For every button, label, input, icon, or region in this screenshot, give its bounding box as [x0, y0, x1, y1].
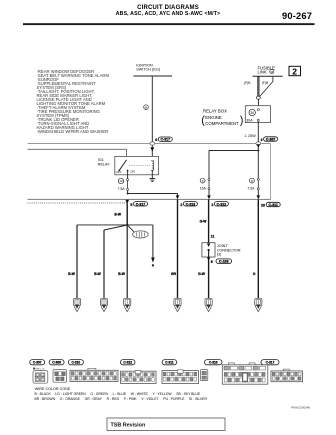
svg-text:C-311: C-311	[269, 203, 278, 207]
svg-text:C-103: C-103	[219, 260, 229, 264]
svg-text:BR : BROWN O : ORANGE: BR : BROWN O : ORANGE GR : GRAY R : RED …	[35, 397, 208, 401]
svg-text:15A: 15A	[200, 187, 207, 191]
svg-text:B-W: B-W	[118, 272, 125, 276]
svg-text:7.5A: 7.5A	[118, 187, 126, 191]
svg-text:C-317: C-317	[161, 138, 171, 142]
svg-text:IG1: IG1	[98, 158, 104, 162]
svg-text:6: 6	[155, 138, 157, 142]
svg-text:WIRE COLOR CODE: WIRE COLOR CODE	[35, 387, 71, 391]
svg-text:O: O	[253, 272, 256, 276]
svg-text:G-W: G-W	[200, 219, 208, 223]
svg-text:): )	[240, 115, 244, 127]
svg-text:(3): (3)	[217, 253, 222, 257]
svg-text:C-312: C-312	[123, 361, 132, 365]
svg-text:C-313: C-313	[209, 361, 218, 365]
svg-text:RAW01CM194B: RAW01CM194B	[291, 406, 310, 410]
svg-text:COMPARTMENT: COMPARTMENT	[205, 121, 239, 126]
svg-text:C-317: C-317	[136, 202, 146, 206]
svg-text:ABS, ASC, ACD, AYC AND S-AWC <: ABS, ASC, ACD, AYC AND S-AWC <M/T>	[116, 11, 220, 17]
svg-text:B: B	[145, 105, 147, 109]
svg-text:36: 36	[270, 70, 273, 74]
svg-text:LINK: LINK	[258, 69, 268, 74]
svg-text:CONNECTOR: CONNECTOR	[217, 248, 241, 252]
svg-text:9: 9	[211, 260, 213, 264]
svg-text:11: 11	[211, 235, 215, 239]
svg-text:B : BLACK LG : LIGHT GREEN: B : BLACK LG : LIGHT GREEN G : GREEN L :…	[35, 392, 201, 396]
svg-text:ON: ON	[130, 170, 134, 174]
svg-text:ENGINE: ENGINE	[205, 115, 222, 120]
svg-text:CIRCUIT DIAGRAMS: CIRCUIT DIAGRAMS	[137, 5, 199, 11]
svg-text:C-307: C-307	[33, 361, 42, 365]
svg-text:(: (	[201, 115, 205, 127]
svg-text:36: 36	[250, 111, 254, 115]
svg-text:8: 8	[251, 179, 253, 183]
svg-text:5: 5	[130, 203, 132, 207]
svg-text:1. 25W: 1. 25W	[244, 134, 256, 138]
svg-text:SWITCH (IG1): SWITCH (IG1)	[136, 68, 160, 72]
svg-text:30A: 30A	[246, 118, 253, 122]
svg-text:C-307: C-307	[266, 137, 276, 141]
svg-text:G-W: G-W	[198, 272, 206, 276]
svg-text:C-310: C-310	[71, 361, 80, 365]
svg-text:B-W: B-W	[68, 272, 75, 276]
svg-text:(F)B: (F)B	[262, 81, 269, 85]
svg-text:GR: GR	[171, 272, 177, 276]
svg-text:C-311: C-311	[165, 361, 174, 365]
svg-text:C-312: C-312	[217, 202, 227, 206]
svg-text:9: 9	[202, 179, 204, 183]
svg-text:2: 2	[211, 203, 213, 207]
svg-text:C-309: C-309	[52, 361, 61, 365]
svg-text:B-W: B-W	[94, 272, 101, 276]
svg-text:2: 2	[261, 138, 263, 142]
svg-text:RELAY: RELAY	[98, 163, 110, 167]
svg-text:7.5A: 7.5A	[247, 187, 255, 191]
svg-text:90-267: 90-267	[282, 11, 312, 21]
svg-text:·WINDSHIELD WIPER AND WASHER: ·WINDSHIELD WIPER AND WASHER	[37, 129, 109, 134]
svg-text:RELAY BOX: RELAY BOX	[203, 109, 227, 114]
svg-text:2: 2	[180, 203, 182, 207]
svg-text:12: 12	[119, 179, 123, 183]
svg-text:TSB Revision: TSB Revision	[111, 423, 146, 429]
svg-text:OFF: OFF	[116, 170, 122, 174]
svg-text:C-313: C-313	[186, 202, 196, 206]
svg-text:20: 20	[261, 204, 265, 208]
svg-text:(F)B: (F)B	[244, 81, 251, 85]
svg-text:C-317: C-317	[266, 361, 275, 365]
svg-text:JOINT: JOINT	[217, 244, 228, 248]
svg-text:2: 2	[292, 66, 297, 76]
svg-text:B-W: B-W	[114, 213, 121, 217]
